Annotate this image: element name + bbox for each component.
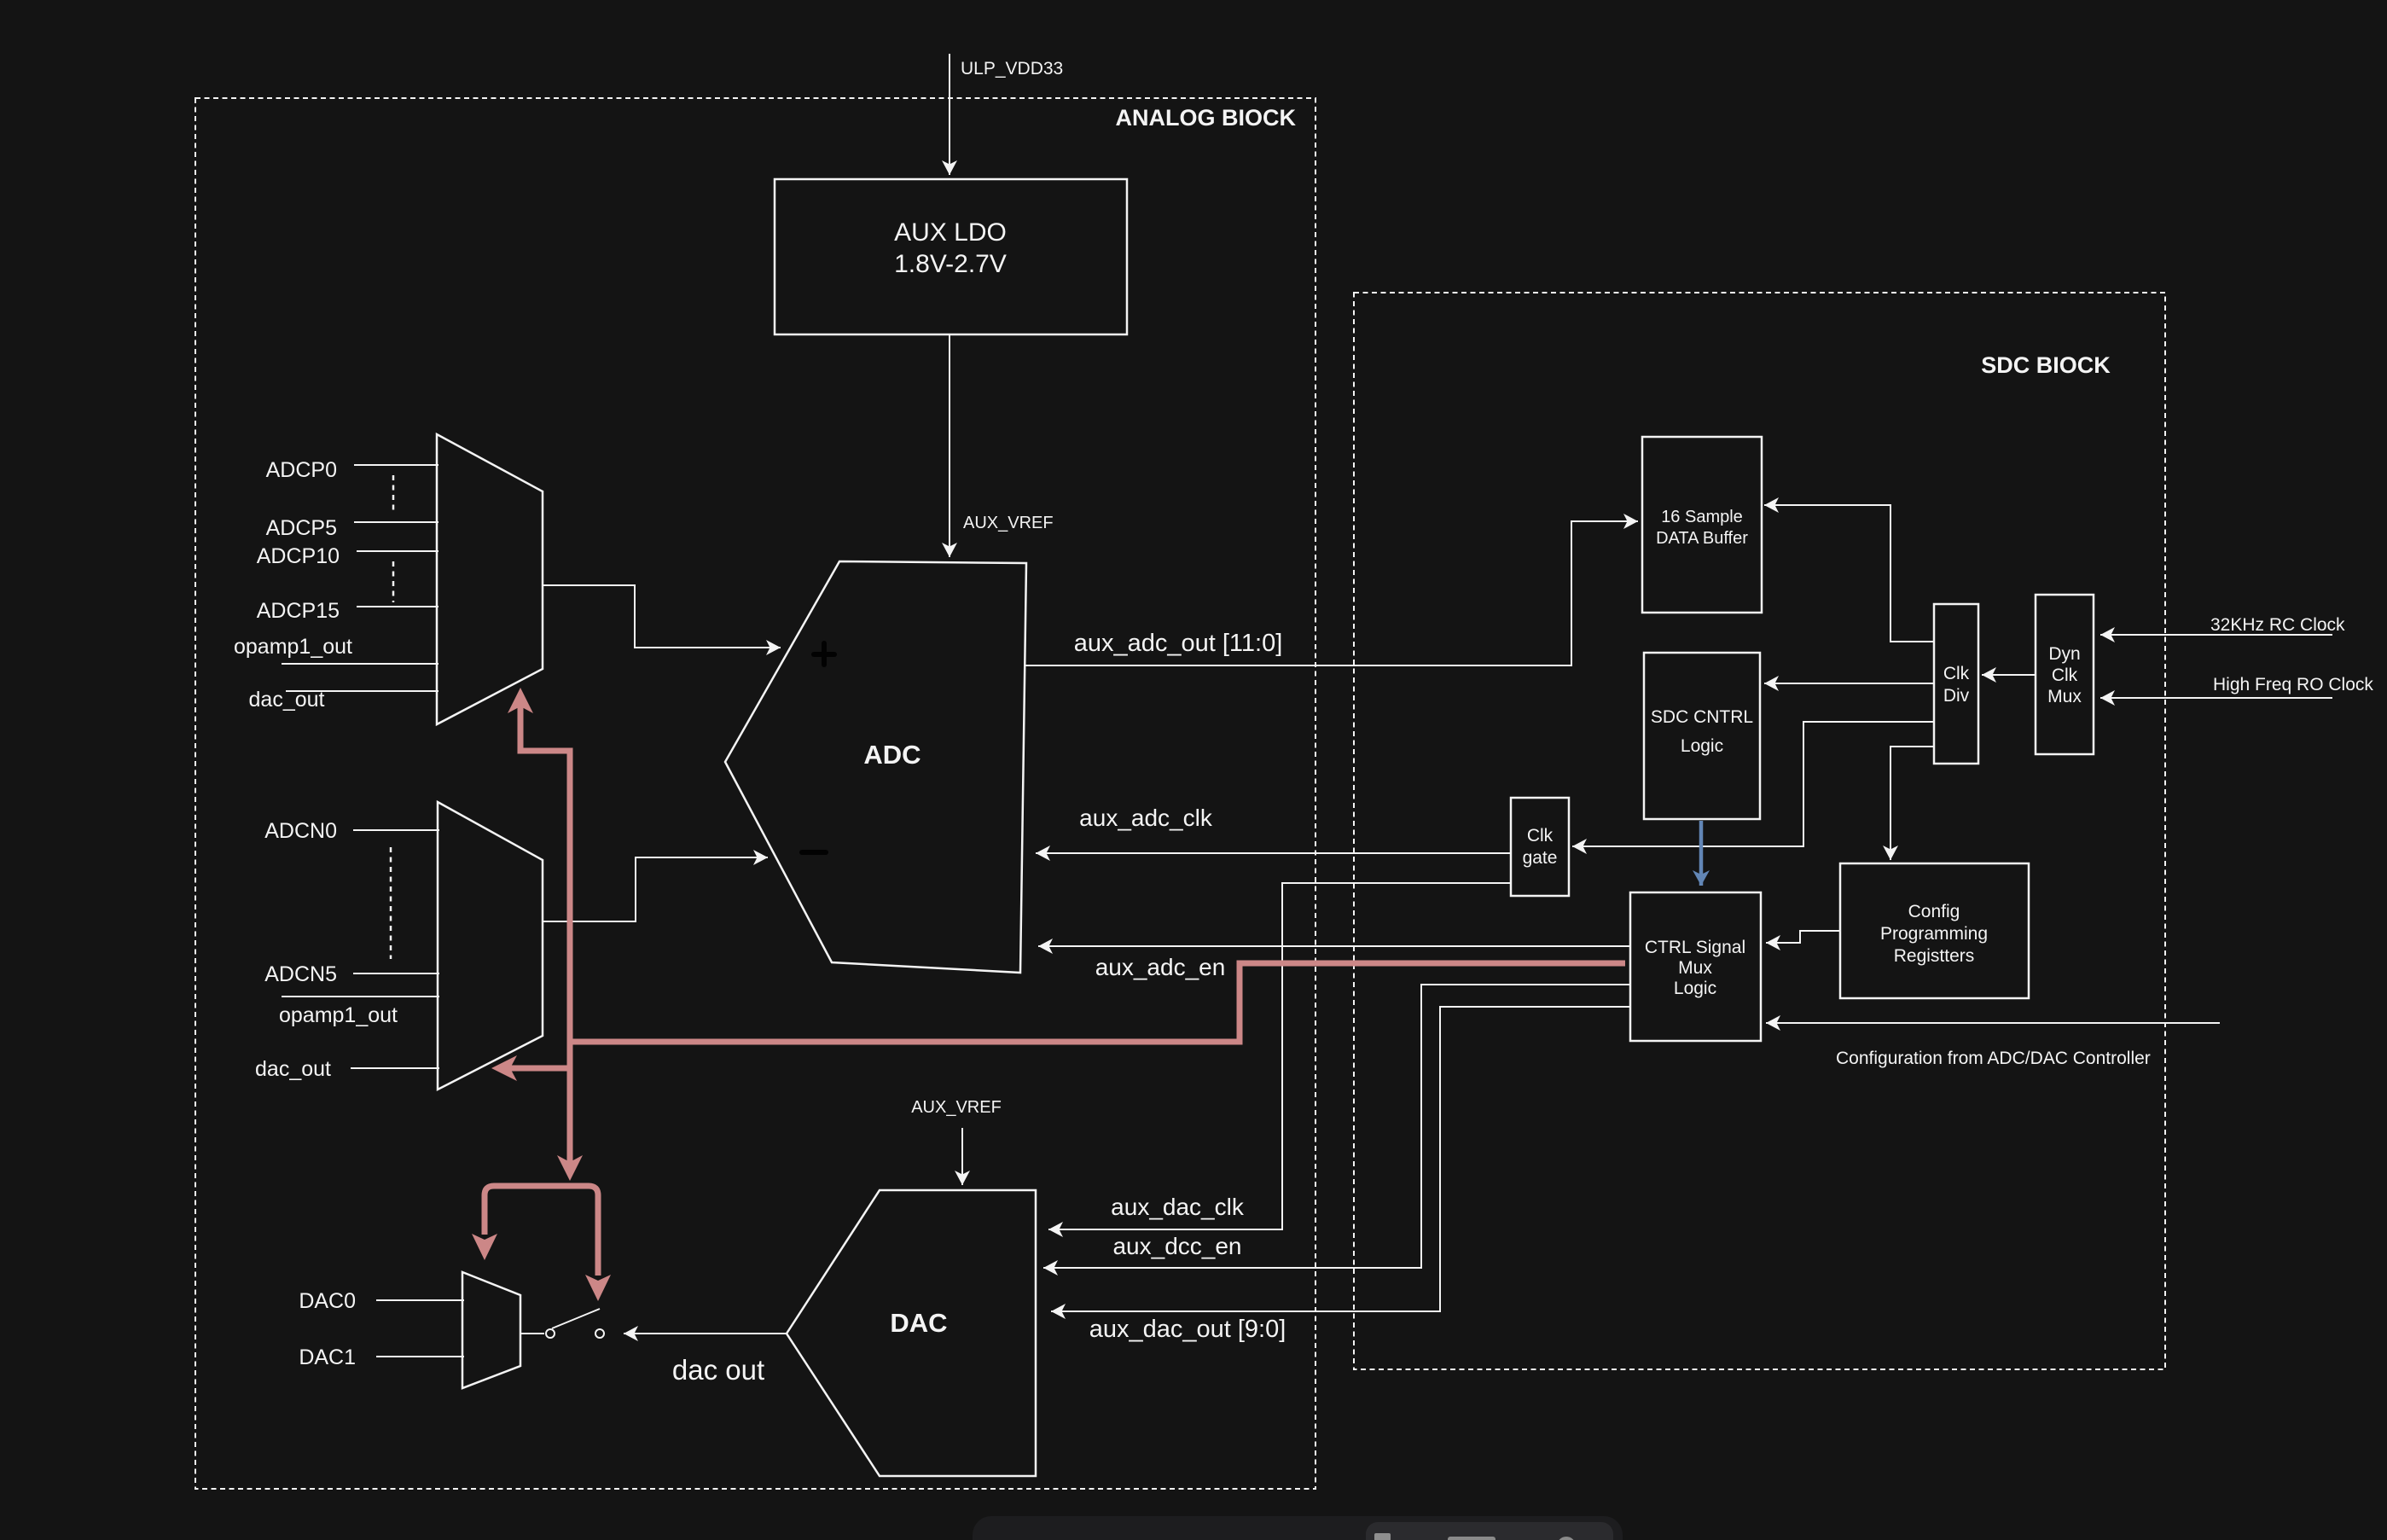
wire ellipsis dashes ADCN0..ADCN5 [390, 847, 392, 959]
wire red bridge to DAC mux and switch [485, 1186, 598, 1276]
svg-text:dac_out: dac_out [255, 1057, 331, 1081]
wire AUX_VREF from AUX LDO to ADC [949, 334, 950, 557]
svg-text:Dyn: Dyn [2048, 644, 2080, 664]
svg-text:AUX_VREF: AUX_VREF [911, 1098, 1002, 1117]
buffer 16 Sample DATA Buffer [1642, 437, 1762, 613]
wire aux_dcc_en from CTRL Signal Mux Logic to DAC [1043, 985, 1630, 1268]
wire dac_out (upper) [286, 690, 438, 692]
wire red stub to dac_out [510, 1066, 570, 1072]
switch SW1 between DAC mux and dac out [520, 1309, 604, 1338]
svg-text:High Freq RO Clock: High Freq RO Clock [2213, 675, 2373, 694]
svg-text:32KHz RC Clock: 32KHz RC Clock [2210, 615, 2345, 635]
svg-text:DAC: DAC [890, 1308, 947, 1338]
svg-text:16 Sample: 16 Sample [1661, 508, 1743, 526]
svg-text:aux_adc_en: aux_adc_en [1095, 954, 1226, 980]
ADC converter [725, 561, 1026, 973]
wire ADCP5 [354, 521, 438, 523]
wire Dyn Clk Mux to Clk Div [1982, 674, 2036, 676]
svg-text:ADCP0: ADCP0 [266, 458, 337, 482]
ADC pin - [799, 850, 828, 855]
toolbar icon 1 [1374, 1533, 1391, 1540]
wire ellipsis dashes ADCP0..ADCP5 [392, 475, 395, 514]
svg-text:AUX_VREF: AUX_VREF [963, 514, 1054, 532]
svg-text:Configuration from ADC/DAC Con: Configuration from ADC/DAC Controller [1836, 1049, 2151, 1068]
wire DAC1 [376, 1356, 464, 1357]
svg-text:ADC: ADC [863, 740, 921, 770]
svg-text:Registters: Registters [1894, 946, 1975, 966]
svg-text:aux_dac_clk: aux_dac_clk [1111, 1194, 1245, 1220]
svg-text:Clk: Clk [1943, 664, 1970, 683]
wire dac out from DAC to switch [624, 1333, 787, 1334]
svg-text:1.8V-2.7V: 1.8V-2.7V [894, 250, 1007, 278]
wire aux_adc_clk from Clk gate to ADC [1036, 852, 1511, 854]
svg-text:ULP_VDD33: ULP_VDD33 [961, 59, 1063, 78]
wire aux_adc_out [11:0] from ADC to 16 Sample DATA Buffer [1025, 521, 1638, 665]
svg-text:ADCP15: ADCP15 [257, 599, 340, 623]
wire Clk Div to Config Programming Registters [1890, 747, 1934, 860]
svg-text:DATA Buffer: DATA Buffer [1656, 529, 1748, 548]
wire opamp1_out (upper) [282, 663, 438, 665]
wire Config Programming Registters to CTRL Signal Mux Logic [1766, 931, 1840, 943]
wire mux M1 output to ADC + input [543, 585, 781, 648]
divider Clk Div [1934, 604, 1978, 764]
wire dac_out (lower) [351, 1067, 439, 1069]
svg-text:opamp1_out: opamp1_out [279, 1003, 398, 1027]
svg-text:dac out: dac out [672, 1354, 764, 1386]
svg-text:ADCP10: ADCP10 [257, 544, 340, 568]
svg-text:aux_adc_clk: aux_adc_clk [1079, 805, 1213, 831]
gate Clk gate [1511, 798, 1569, 896]
wire ULP_VDD33 into AUX LDO [949, 54, 950, 175]
wire aux_adc_en from CTRL Signal Mux Logic to ADC [1038, 945, 1630, 947]
svg-text:aux_adc_out [11:0]: aux_adc_out [11:0] [1074, 630, 1283, 657]
wire ADCN0 [353, 829, 439, 831]
red arrowhead bridge left [472, 1234, 497, 1260]
wire AUX_VREF into DAC [961, 1128, 963, 1185]
toolbar inner panel [1366, 1522, 1613, 1540]
svg-text:DAC0: DAC0 [299, 1289, 356, 1313]
ANALOG block dashed frame [195, 98, 1315, 1489]
svg-text:aux_dac_out [9:0]: aux_dac_out [9:0] [1089, 1316, 1286, 1343]
logic SDC CNTRL Logic [1644, 653, 1760, 819]
wire red trunk down [567, 1042, 573, 1162]
svg-text:Config: Config [1908, 902, 1960, 921]
regulator AUX LDO [775, 179, 1127, 334]
wire aux_dac_clk from Clk gate to DAC [1048, 883, 1511, 1229]
wire ADCP0 [354, 464, 438, 466]
svg-text:ADCN0: ADCN0 [264, 819, 337, 843]
ADC pin + [811, 641, 837, 667]
svg-text:opamp1_out: opamp1_out [234, 635, 352, 659]
svg-text:SDC BIOCK: SDC BIOCK [1981, 352, 2111, 378]
DAC converter [787, 1190, 1036, 1476]
toolbar icon 3 [1559, 1538, 1574, 1540]
svg-text:ADCN5: ADCN5 [264, 962, 337, 986]
wire red vertical trunk [520, 706, 570, 1042]
wire Clk Div to 16 Sample DATA Buffer [1764, 505, 1934, 642]
red arrowhead bridge right [585, 1275, 611, 1301]
svg-text:SDC CNTRL: SDC CNTRL [1651, 707, 1753, 727]
wire DAC0 [376, 1299, 464, 1301]
wire ellipsis dashes ADCP10..ADCP15 [392, 561, 395, 602]
svg-text:Mux: Mux [1678, 958, 1712, 978]
wire aux_dac_out [9:0] from CTRL Signal Mux Logic to DAC [1051, 1007, 1630, 1311]
SDC block dashed frame [1354, 293, 2165, 1369]
svg-text:CTRL Signal: CTRL Signal [1645, 938, 1745, 957]
svg-text:DAC1: DAC1 [299, 1345, 356, 1369]
mux Dyn Clk Mux [2036, 595, 2094, 754]
toolbar icon 2 [1448, 1537, 1496, 1540]
svg-text:Logic: Logic [1681, 736, 1723, 756]
svg-text:ADCP5: ADCP5 [266, 516, 337, 540]
mux M1 (positive input mux) [437, 434, 543, 724]
mux M2 (negative input mux) [438, 802, 543, 1090]
svg-text:aux_dcc_en: aux_dcc_en [1112, 1233, 1241, 1259]
svg-text:Clk: Clk [1527, 826, 1554, 846]
wire mux M2 output to ADC - input [543, 857, 768, 921]
svg-text:Clk: Clk [2052, 665, 2078, 685]
logic CTRL Signal Mux Logic [1630, 892, 1761, 1041]
svg-text:Logic: Logic [1674, 979, 1716, 998]
svg-text:Programming: Programming [1880, 924, 1988, 944]
svg-text:ANALOG BIOCK: ANALOG BIOCK [1116, 105, 1297, 131]
wire 32KHz RC Clock into Dyn Clk Mux [2100, 634, 2332, 636]
svg-text:gate: gate [1523, 848, 1558, 868]
wire red enable path from CTRL Signal Mux Logic (horizontal trunk) [570, 963, 1625, 1042]
wire ADCP10 [357, 550, 438, 552]
wire Configuration from ADC/DAC Controller to CTRL Signal Mux Logic [1766, 1022, 2220, 1024]
svg-text:Div: Div [1943, 686, 1970, 706]
wire High Freq RO Clock into Dyn Clk Mux [2100, 697, 2332, 699]
wire Clk Div to SDC CNTRL Logic [1764, 683, 1934, 684]
mux M3 (DAC output mux) [462, 1272, 520, 1388]
svg-text:AUX LDO: AUX LDO [894, 218, 1007, 247]
wire blue SDC CNTRL Logic to CTRL Signal Mux Logic [1699, 821, 1704, 886]
wire opamp1_out (lower) [282, 996, 439, 997]
svg-text:Mux: Mux [2047, 687, 2082, 706]
wire ADCN5 [353, 973, 439, 974]
wire ADCP15 [357, 606, 438, 607]
wire Clk Div to Clk gate [1572, 722, 1934, 846]
toolbar background (bottom UI) [973, 1516, 1623, 1540]
registers Config Programming Registters [1840, 863, 2029, 998]
